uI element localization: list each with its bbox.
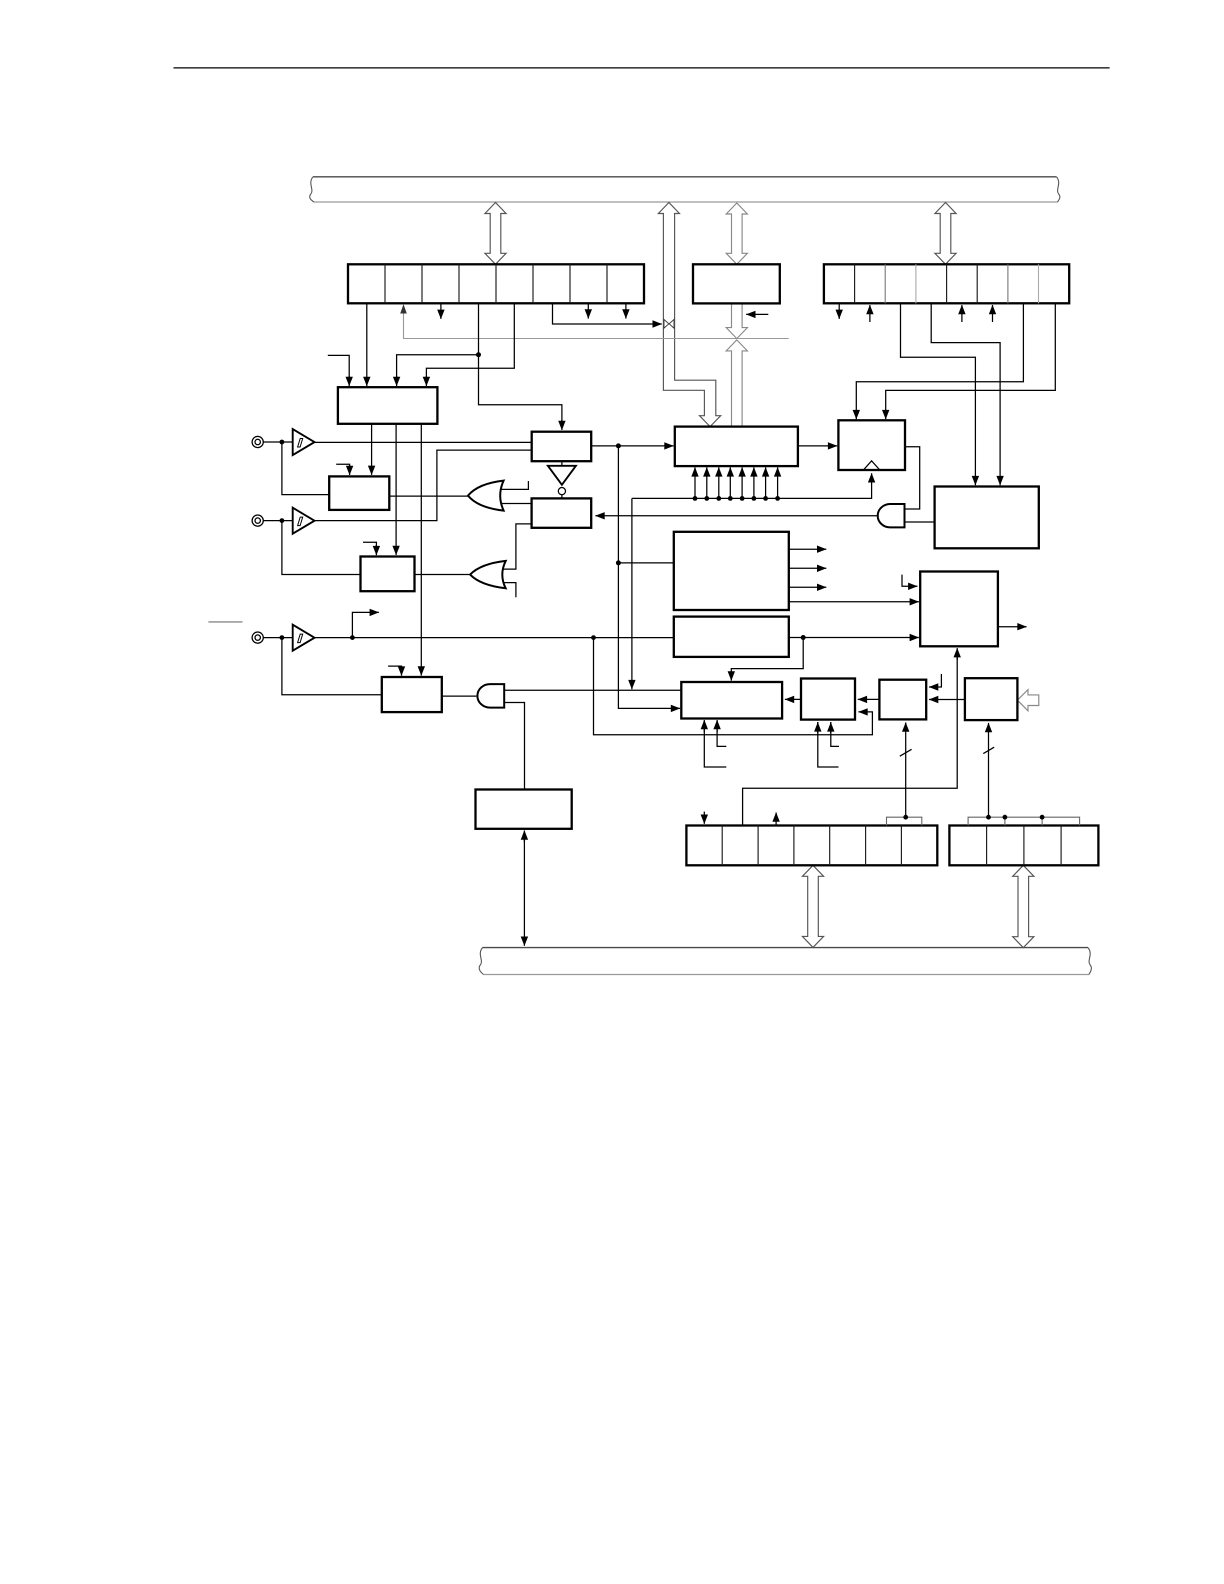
schmitt buffer U3 bbox=[263, 625, 314, 651]
wire CRC bit6 stub down bbox=[587, 303, 589, 318]
internal bus (top) bbox=[310, 177, 1060, 202]
bus double arrow to CRC register bbox=[485, 203, 506, 265]
wire lower edge box to OR2 input bbox=[503, 524, 532, 569]
hook input to selector bbox=[328, 355, 349, 386]
register CRC00 (8-bit, top left) bbox=[348, 264, 644, 303]
node TI001 junction bbox=[280, 635, 285, 640]
stub arrow from U3 output bbox=[352, 612, 379, 637]
and-gate G4 bbox=[477, 684, 681, 789]
inverter bbox=[548, 461, 576, 498]
capture register CR000 bbox=[329, 476, 389, 510]
wire TI010 branch to CR010 bbox=[282, 521, 361, 575]
match output stub 1 bbox=[789, 548, 827, 550]
wire right register bit2 to count box bbox=[901, 303, 976, 485]
wire CRC bit5 to crossing at tall arrow bbox=[553, 303, 662, 324]
clock tap risers to selector block bbox=[693, 467, 780, 501]
block arrow input into right small box bbox=[1017, 690, 1038, 711]
and-gate G3 bbox=[595, 504, 934, 527]
hook input to CR000 bbox=[336, 464, 349, 475]
wire CRC bit4 to selector bbox=[426, 303, 514, 386]
capture box (third channel) bbox=[382, 677, 442, 712]
node on U3 output bbox=[350, 635, 355, 640]
wire right register bit6 to clock box bbox=[856, 303, 1023, 419]
wire right register bit5 stub up bbox=[992, 305, 994, 322]
hook input to output controller bbox=[902, 575, 917, 587]
wire toggle box to output control bbox=[858, 698, 880, 700]
bus double arrow to right register bbox=[935, 203, 956, 265]
selector block (center) bbox=[675, 427, 798, 467]
or-gate G1 bbox=[468, 481, 532, 511]
gray feedback line bbox=[404, 306, 789, 339]
schmitt buffer U2 bbox=[263, 508, 314, 534]
hooks below output latch box bbox=[704, 720, 726, 767]
wire right register bit1 stub up bbox=[869, 305, 871, 322]
lower-left register (7-bit) bbox=[686, 826, 937, 866]
crossing symbol on tall arrow bbox=[664, 319, 674, 328]
wire U3 output to edge select box bbox=[315, 637, 674, 639]
stub arrow into outline arrow shaft bbox=[746, 313, 768, 315]
wire output control to output latch bbox=[785, 698, 801, 700]
output control box bbox=[801, 679, 855, 720]
wire selector block to clock count box bbox=[798, 445, 837, 447]
wire U2 output riser to edge detect box bbox=[315, 450, 532, 520]
selector (top left) bbox=[338, 387, 438, 424]
wire junction down to output controller row bbox=[616, 446, 680, 709]
wire bracket up to output mode box with width slash bbox=[983, 723, 994, 817]
bracket on lower-left register bbox=[887, 815, 922, 826]
wire CRC bit7 stub down bbox=[625, 303, 627, 318]
label dash bbox=[208, 621, 242, 623]
or-gate G2 bbox=[415, 561, 516, 597]
wire TI001 branch to capture box bbox=[282, 638, 382, 695]
match output stub 3 bbox=[789, 586, 827, 588]
wire right register bit4 stub up bbox=[961, 305, 963, 322]
bus double arrow to CR register bbox=[726, 203, 747, 264]
TI001 pin terminal bbox=[252, 632, 263, 643]
register CR00 (top middle) bbox=[693, 264, 780, 303]
count clock line with taps bbox=[632, 473, 872, 689]
internal bus (bottom) bbox=[479, 948, 1091, 975]
wire U3 branch to count clock riser bbox=[594, 638, 873, 735]
node TI010 junction bbox=[280, 518, 285, 523]
wire clock count box to and-gate G3 bbox=[905, 447, 920, 509]
wire right register bit3 to count box bbox=[931, 303, 1000, 485]
wire watch box to bus (both arrows) bbox=[523, 831, 525, 946]
capture/compare register CR010 bbox=[361, 557, 415, 592]
stub arrow out of lower-left register bbox=[775, 813, 777, 826]
node TI000 junction bbox=[280, 440, 285, 445]
hooks below output control box bbox=[818, 722, 839, 767]
node U3 output branch bbox=[591, 635, 596, 640]
TO00 output stub arrow bbox=[998, 626, 1027, 628]
toggle box bbox=[879, 680, 926, 720]
wire capture box to and-gate G4 bbox=[442, 695, 477, 697]
register TMC00/PRM00 (8-bit, top right) bbox=[824, 264, 1069, 303]
wire edge select box to output controller with junction bbox=[731, 635, 919, 681]
interrupt box (right of G3) bbox=[935, 487, 1039, 549]
TI000 pin terminal bbox=[252, 436, 263, 447]
wire CR000 to OR gate bbox=[389, 495, 468, 497]
output latch box bbox=[681, 682, 782, 719]
double arrow lower-left register to bus bbox=[802, 865, 823, 947]
tall bus arrow with jog to selector block bbox=[658, 203, 720, 427]
output controller box bbox=[920, 572, 998, 647]
header rule bbox=[174, 67, 1110, 69]
wire register bit up to output controller bbox=[743, 648, 958, 825]
wire CRC bit2 stub down bbox=[440, 303, 442, 319]
hook input to capture box bbox=[388, 666, 401, 676]
wire right register bit7 to clock box bbox=[886, 303, 1056, 419]
wire selector to lower capture box bbox=[420, 424, 422, 676]
wire output mode to toggle box bbox=[929, 699, 965, 701]
edge detection box (lower) bbox=[532, 498, 592, 527]
hook input to CR010 bbox=[363, 542, 376, 555]
clock count box bbox=[838, 420, 905, 470]
wire right register bit0 stub down bbox=[838, 303, 840, 319]
wire TI000 branch to CR000 bbox=[282, 442, 329, 495]
wire CRC bit3 down with junction bbox=[397, 303, 562, 430]
TI010 pin terminal bbox=[252, 515, 263, 526]
match output stub 2 bbox=[789, 567, 827, 569]
wire edge box to selector block with junction bbox=[591, 443, 673, 448]
edge detection box (upper) bbox=[532, 432, 592, 462]
output mode box bbox=[965, 678, 1018, 720]
hook input to toggle box bbox=[929, 674, 941, 687]
wire U1 output to edge detect box bbox=[315, 441, 532, 443]
16-bit counter TM00 bbox=[674, 532, 789, 610]
wire TM00 to output controller bbox=[789, 601, 919, 603]
wire bracket up to toggle box with width slash bbox=[900, 723, 912, 818]
double arrow lower-right register to bus bbox=[1013, 865, 1034, 947]
outline arrow crossing up from selector block bbox=[726, 340, 747, 427]
wire selector to CR010 bbox=[395, 424, 397, 555]
outline arrow CR register down to crossing bbox=[726, 303, 747, 338]
arrowhead gray riser into CRC register bbox=[400, 304, 407, 313]
wire selector to CR000 bbox=[371, 424, 373, 475]
schmitt buffer U1 bbox=[263, 429, 314, 455]
watch timer box bbox=[476, 790, 572, 829]
wire CRC bit0 to selector bbox=[366, 303, 368, 386]
lower-right register (4-bit) bbox=[949, 826, 1098, 866]
stub arrow into lower-left register bbox=[703, 812, 705, 824]
edge select box (below TM00) bbox=[674, 617, 789, 657]
bracket on lower-right register bbox=[968, 815, 1080, 826]
